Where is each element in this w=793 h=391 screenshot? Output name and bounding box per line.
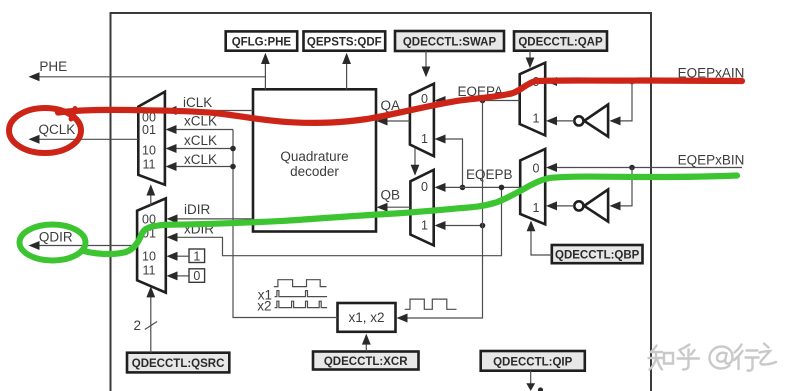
- svg-text:01: 01: [142, 123, 156, 137]
- svg-text:iDIR: iDIR: [184, 202, 210, 217]
- svg-text:QDECCTL:XCR: QDECCTL:XCR: [324, 356, 408, 368]
- quadrature decoder block U1: [253, 89, 376, 231]
- wire xDIR from EQEPB node: [167, 187, 502, 255]
- wire iDIR: [167, 202, 254, 223]
- svg-text:EQEPxBIN: EQEPxBIN: [678, 152, 745, 167]
- svg-text:1: 1: [421, 132, 428, 146]
- x1,x2 block: [338, 303, 396, 332]
- wire QDECCTL:QAP select: [526, 51, 535, 69]
- register box QDECCTL:QIP: [481, 351, 585, 371]
- svg-text:QDECCTL:QIP: QDECCTL:QIP: [493, 356, 573, 368]
- svg-text:x1, x2: x1, x2: [348, 310, 384, 325]
- register box QDECCTL:SWAP: [395, 31, 504, 51]
- register box QDECCTL:QAP: [514, 31, 607, 50]
- wire swap mux B input 1: [435, 221, 486, 230]
- svg-text:iCLK: iCLK: [183, 95, 212, 110]
- svg-text:1: 1: [421, 219, 428, 233]
- annotation green circle around QDIR: [20, 225, 86, 261]
- wire QDIR output: [29, 229, 138, 250]
- svg-text:0: 0: [533, 162, 540, 176]
- waveform x1: [258, 288, 327, 303]
- wire QSRC select to QCLK mux: [146, 184, 155, 205]
- wire EQEPxBIN input: [546, 152, 744, 172]
- svg-text:xCLK: xCLK: [184, 152, 217, 167]
- annotation red circle around QCLK: [9, 108, 81, 153]
- inverter U2 (EQEPA path): [574, 105, 608, 137]
- wire inverter A net: [546, 82, 632, 126]
- wire to QEPSTS:QDF register: [342, 53, 351, 90]
- svg-text:QDECCTL:QBP: QDECCTL:QBP: [555, 250, 640, 262]
- svg-text:11: 11: [143, 157, 156, 171]
- wire swap select pass-through: [411, 148, 420, 176]
- wire xCLK input 10: [166, 133, 234, 153]
- mux QCLK 4:1: [138, 92, 165, 185]
- wire QDECCTL:SWAP select: [422, 51, 431, 77]
- svg-text:QDECCTL:QAP: QDECCTL:QAP: [518, 37, 603, 49]
- register box QFLG:PHE: [226, 31, 298, 50]
- svg-text:11: 11: [143, 264, 156, 278]
- svg-text:2: 2: [134, 318, 142, 333]
- svg-text:10: 10: [142, 143, 156, 157]
- svg-text:1: 1: [533, 112, 540, 126]
- wire constant 1 input: [167, 252, 190, 261]
- svg-text:Quadrature: Quadrature: [280, 149, 348, 164]
- wire PHE output: [29, 59, 266, 82]
- wire EQEPA tap to x1,x2 block: [397, 101, 483, 323]
- register box QEPSTS:QDF: [304, 31, 386, 50]
- svg-text:QDIR: QDIR: [39, 229, 73, 244]
- wire EQEPA net: [435, 84, 520, 105]
- register box QDECCTL:XCR: [313, 352, 419, 370]
- wire to QFLG:PHE register: [261, 53, 270, 90]
- constant 1 box: [189, 249, 205, 263]
- svg-text:x2: x2: [257, 298, 271, 313]
- svg-text:10: 10: [142, 249, 156, 263]
- wire constant 0 input: [167, 271, 190, 280]
- register box QDECCTL:QSRC: [127, 353, 229, 373]
- svg-text:decoder: decoder: [290, 164, 339, 179]
- svg-text:1: 1: [193, 249, 200, 263]
- wire xCLK input 11: [166, 152, 234, 171]
- mux QDIR 4:1: [137, 198, 166, 292]
- wire QDECCTL:QIP to index logic: [526, 371, 543, 391]
- svg-text:QB: QB: [381, 188, 401, 203]
- wire swap mux A input 1: [435, 135, 466, 191]
- mux swap B 2:1: [410, 170, 433, 246]
- svg-text:xCLK: xCLK: [184, 133, 217, 148]
- svg-text:QFLG:PHE: QFLG:PHE: [232, 37, 292, 49]
- svg-text:1: 1: [533, 201, 540, 215]
- constant 0 box: [189, 269, 205, 283]
- wire xCLK feed from x1,x2 block: [230, 130, 337, 318]
- svg-text:EQEPB: EQEPB: [466, 167, 513, 182]
- inverter U3 (EQEPB path): [574, 190, 608, 222]
- wire EQEPxAIN input: [546, 65, 744, 86]
- svg-text:PHE: PHE: [39, 59, 67, 74]
- outer module frame: [111, 13, 652, 391]
- annotation green stroke along xDIR and EQEPxBIN: [82, 176, 737, 255]
- wire inverter B net: [546, 168, 632, 211]
- wire QDECCTL:QBP select: [527, 221, 552, 256]
- wire QA into decoder: [377, 98, 410, 126]
- wire QDECCTL:XCR select: [362, 334, 371, 352]
- wire EQEPB net: [435, 167, 521, 192]
- svg-text:0: 0: [421, 180, 428, 194]
- mux polarity A 2:1: [520, 63, 546, 136]
- mux swap A 2:1: [410, 84, 434, 157]
- svg-text:QCLK: QCLK: [39, 122, 76, 137]
- waveform quadrature clock: [274, 280, 327, 287]
- wire iCLK: [166, 95, 254, 115]
- svg-text:QDECCTL:SWAP: QDECCTL:SWAP: [403, 37, 497, 49]
- wire QB into decoder: [377, 188, 411, 212]
- wire QCLK output: [29, 122, 139, 144]
- wire xCLK input 01: [166, 114, 234, 134]
- annotation red stroke along iCLK and EQEPxAIN: [58, 80, 742, 122]
- watermark zhihu @xingzhi: [649, 344, 777, 371]
- mux polarity B 2:1: [520, 149, 545, 224]
- register box QDECCTL:QBP: [552, 245, 643, 263]
- svg-text:QDECCTL:QSRC: QDECCTL:QSRC: [132, 358, 225, 370]
- waveform x2: [257, 298, 327, 313]
- waveform xCLK output: [405, 299, 457, 309]
- svg-text:0: 0: [193, 269, 200, 283]
- annotation red loop closure tick: [71, 109, 75, 120]
- svg-text:QEPSTS:QDF: QEPSTS:QDF: [307, 37, 382, 49]
- wire QSRC select to QDIR mux: [134, 286, 158, 353]
